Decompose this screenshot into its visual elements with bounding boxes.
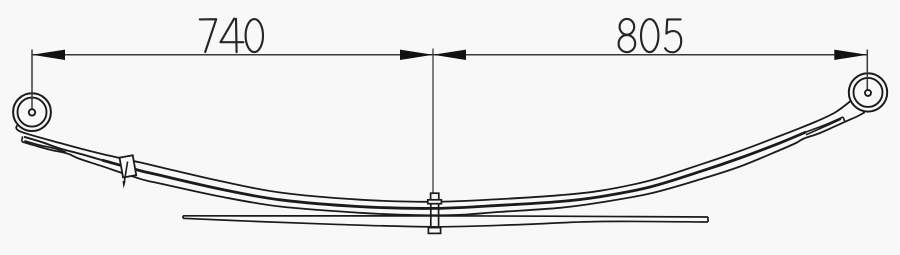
center bolt shaft [430, 204, 432, 228]
dimension line 805 [433, 54, 867, 56]
extension line center [432, 49, 434, 194]
spring clamp [120, 155, 137, 177]
leaf1/leaf2 contact line [102, 132, 806, 208]
main leaf top edge [16, 101, 851, 202]
arrowhead 805 left [433, 50, 466, 60]
leaf2 taper line right [806, 117, 843, 132]
right spring eye [849, 73, 887, 111]
dimension text 805 [619, 19, 682, 52]
arrowhead 740 right [400, 50, 433, 60]
extension line right [866, 50, 868, 93]
left eye center dot [29, 109, 35, 115]
extension line left [31, 50, 33, 113]
leaf2 left end cap [22, 136, 23, 141]
leaf2 taper diagonal left [25, 141, 67, 153]
clamp bolt tail [124, 162, 128, 186]
left spring eye [13, 93, 51, 131]
center bolt head [431, 193, 439, 200]
leaf 3 (bottom flat leaf) [183, 216, 708, 227]
dimension line 740 [32, 54, 433, 56]
arrowhead at left extension [32, 50, 65, 60]
leaf2 taper diagonal right [806, 119, 841, 135]
arrowhead at right extension [834, 50, 867, 60]
leaf 2 bottom edge [22, 112, 865, 215]
leaf1/leaf2 contact line thin left [24, 137, 102, 160]
center bolt nut [428, 228, 440, 234]
dimension text 740 [200, 19, 263, 53]
center bolt flange [428, 200, 442, 204]
leaf2 right end cap [843, 117, 845, 122]
right eye center dot [865, 90, 871, 96]
